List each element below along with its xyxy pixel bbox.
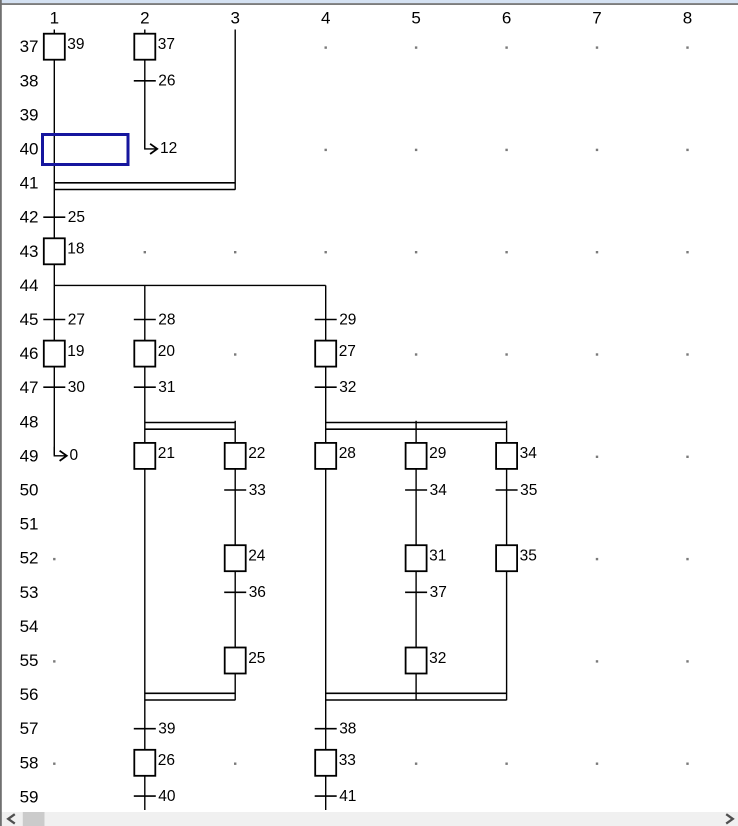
svg-text:34: 34 <box>430 482 448 499</box>
wire col6 AND-split to step 34 <box>506 421 508 443</box>
svg-text:27: 27 <box>339 343 356 360</box>
transition 31 <box>134 379 176 396</box>
wire col3 step 24 to step 25 (through transition 36) <box>234 571 236 647</box>
svg-text:46: 46 <box>20 344 39 363</box>
svg-text:39: 39 <box>158 721 175 738</box>
svg-text:5: 5 <box>411 9 420 28</box>
svg-text:28: 28 <box>158 311 175 328</box>
svg-text:32: 32 <box>339 379 356 396</box>
transition 37 <box>405 584 447 601</box>
svg-text:55: 55 <box>20 651 39 670</box>
wire col2 step 21 through AND-join row56 to step 26 (through transition 39) <box>144 469 146 750</box>
left window border <box>0 0 2 811</box>
step 34 <box>496 443 537 469</box>
wire col5 step 31 to step 32 (through transition 37) <box>415 571 417 647</box>
wire col4 OR-branch to step 27 (through transition 29) <box>325 285 327 340</box>
svg-text:40: 40 <box>158 788 176 805</box>
step 33 <box>315 750 356 776</box>
wire col4 step 33 down (through transition 41) <box>325 776 327 810</box>
svg-text:32: 32 <box>429 650 446 667</box>
svg-text:50: 50 <box>20 481 39 500</box>
wire col5 AND-split to step 29 <box>415 421 417 443</box>
transition 38 <box>315 721 357 738</box>
svg-text:6: 6 <box>502 9 511 28</box>
wire col3 step 22 to step 24 (through transition 33) <box>234 469 236 545</box>
step 39 <box>44 34 85 60</box>
transition 34 <box>405 482 447 499</box>
wire col1 into step 39 <box>53 30 55 34</box>
wire col2 step 20 through AND-split row48 to step 21 (through transition 31) <box>144 367 146 443</box>
svg-text:58: 58 <box>20 753 39 772</box>
svg-text:42: 42 <box>20 208 39 227</box>
svg-text:28: 28 <box>339 445 356 462</box>
step 35 <box>496 545 537 571</box>
svg-text:26: 26 <box>158 752 175 769</box>
scrollbar left arrow <box>8 814 15 823</box>
svg-text:41: 41 <box>20 174 39 193</box>
svg-text:38: 38 <box>339 721 356 738</box>
svg-text:19: 19 <box>67 343 84 360</box>
step 29 <box>406 443 447 469</box>
svg-text:37: 37 <box>430 584 447 601</box>
step 21 <box>134 443 175 469</box>
svg-text:29: 29 <box>339 311 356 328</box>
AND-convergence double line row 56 right <box>326 693 507 700</box>
svg-text:26: 26 <box>158 73 175 90</box>
svg-text:2: 2 <box>140 9 149 28</box>
transition 25 <box>43 209 85 226</box>
transition 29 <box>315 311 357 328</box>
wire col4 step 27 through AND-split row48 to step 28 (through transition 32) <box>325 367 327 443</box>
wire col5 step 32 to AND-join row56 <box>415 674 417 701</box>
wire col2 OR-branch to step 20 (through transition 28) <box>144 285 146 340</box>
svg-text:29: 29 <box>429 445 446 462</box>
svg-text:38: 38 <box>20 71 39 90</box>
svg-text:33: 33 <box>339 752 356 769</box>
wire col2 into step 37 <box>144 30 146 34</box>
toolbar strip top <box>0 0 738 3</box>
wire col3 AND-split to step 22 <box>234 421 236 443</box>
svg-text:59: 59 <box>20 787 39 806</box>
svg-text:4: 4 <box>321 9 330 28</box>
svg-text:24: 24 <box>248 548 266 565</box>
svg-text:47: 47 <box>20 378 39 397</box>
svg-text:20: 20 <box>158 343 176 360</box>
svg-text:1: 1 <box>50 9 59 28</box>
wire col3 step 25 to AND-join row56 <box>234 674 236 701</box>
transition 40 <box>134 788 176 805</box>
transition 35 <box>496 482 538 499</box>
step 22 <box>225 443 266 469</box>
wire col6 step 34 to step 35 (through transition 35) <box>506 469 508 545</box>
step 20 <box>134 341 175 367</box>
step 24 <box>225 545 266 571</box>
step 37 <box>134 34 175 60</box>
step 18 <box>44 238 85 264</box>
svg-text:3: 3 <box>230 9 239 28</box>
transition 32 <box>315 379 357 396</box>
jump to step 12 <box>145 140 177 157</box>
wire col1 step 39 through AND-join row41 to step 18 (through transition 25) <box>53 60 55 239</box>
svg-text:35: 35 <box>520 548 537 565</box>
svg-text:37: 37 <box>20 37 39 56</box>
svg-text:7: 7 <box>592 9 601 28</box>
transition 26 <box>134 73 176 90</box>
svg-text:31: 31 <box>158 379 175 396</box>
AND-convergence double line row 41 <box>54 183 235 190</box>
svg-text:18: 18 <box>67 241 84 258</box>
svg-text:33: 33 <box>249 482 266 499</box>
OR-divergence line row 44 <box>54 284 325 286</box>
wire col1 step 18 to step 19 (through OR-branch row44, transition 27) <box>53 264 55 340</box>
step 28 <box>315 443 356 469</box>
svg-text:57: 57 <box>20 719 39 738</box>
step 25 <box>225 648 266 674</box>
svg-text:25: 25 <box>248 650 265 667</box>
transition 27 <box>43 311 85 328</box>
svg-text:39: 39 <box>20 105 39 124</box>
svg-text:37: 37 <box>158 36 175 53</box>
wire col4 step 28 through AND-join row56 to step 33 (through transition 38) <box>325 469 327 750</box>
svg-text:27: 27 <box>68 311 85 328</box>
svg-text:21: 21 <box>158 445 175 462</box>
step 19 <box>44 341 85 367</box>
wire col5 step 29 to step 31 (through transition 34) <box>415 469 417 545</box>
jump to step 0 <box>54 447 78 464</box>
svg-text:51: 51 <box>20 515 39 534</box>
wire col1 step 19 to jump (through transition 30) <box>53 367 55 456</box>
transition 39 <box>134 721 176 738</box>
svg-text:56: 56 <box>20 685 39 704</box>
svg-text:54: 54 <box>20 617 39 636</box>
AND-divergence double line row 48 right <box>326 423 507 430</box>
left window border (over scrollbar) <box>0 811 2 826</box>
wire col2 step 26 down (through transition 40) <box>144 776 146 810</box>
transition 41 <box>315 788 357 805</box>
svg-text:41: 41 <box>339 788 356 805</box>
svg-text:35: 35 <box>520 482 537 499</box>
wire col2 step 37 to jump (through transition 26) <box>144 60 146 149</box>
svg-text:48: 48 <box>20 412 39 431</box>
step 26 <box>134 750 175 776</box>
horizontal scrollbar track <box>0 812 738 826</box>
wire col3 into AND-join row41 <box>234 30 236 190</box>
svg-text:30: 30 <box>68 379 86 396</box>
transition 33 <box>224 482 266 499</box>
scrollbar right arrow <box>726 814 733 823</box>
transition 28 <box>134 311 176 328</box>
scrollbar thumb <box>23 812 45 826</box>
AND-convergence double line row 56 left <box>145 693 235 700</box>
svg-text:0: 0 <box>70 447 79 464</box>
svg-text:44: 44 <box>20 276 39 295</box>
svg-text:25: 25 <box>68 209 85 226</box>
svg-text:40: 40 <box>20 140 39 159</box>
transition 30 <box>43 379 85 396</box>
svg-text:45: 45 <box>20 310 39 329</box>
svg-text:12: 12 <box>160 140 177 157</box>
svg-text:39: 39 <box>67 36 84 53</box>
transition 36 <box>224 584 266 601</box>
svg-text:8: 8 <box>683 9 692 28</box>
svg-text:36: 36 <box>249 584 266 601</box>
selection cursor (blue cell highlight, row 40 col 1) <box>43 135 129 165</box>
AND-divergence double line row 48 left <box>145 423 235 430</box>
svg-text:43: 43 <box>20 242 39 261</box>
svg-text:52: 52 <box>20 549 39 568</box>
svg-text:53: 53 <box>20 583 39 602</box>
step 27 <box>315 341 356 367</box>
svg-text:22: 22 <box>248 445 265 462</box>
step 32 <box>406 648 447 674</box>
step 31 <box>406 545 447 571</box>
svg-text:31: 31 <box>429 548 446 565</box>
svg-text:34: 34 <box>520 445 538 462</box>
svg-text:49: 49 <box>20 446 39 465</box>
wire col6 step 35 to AND-join row56 <box>506 571 508 700</box>
